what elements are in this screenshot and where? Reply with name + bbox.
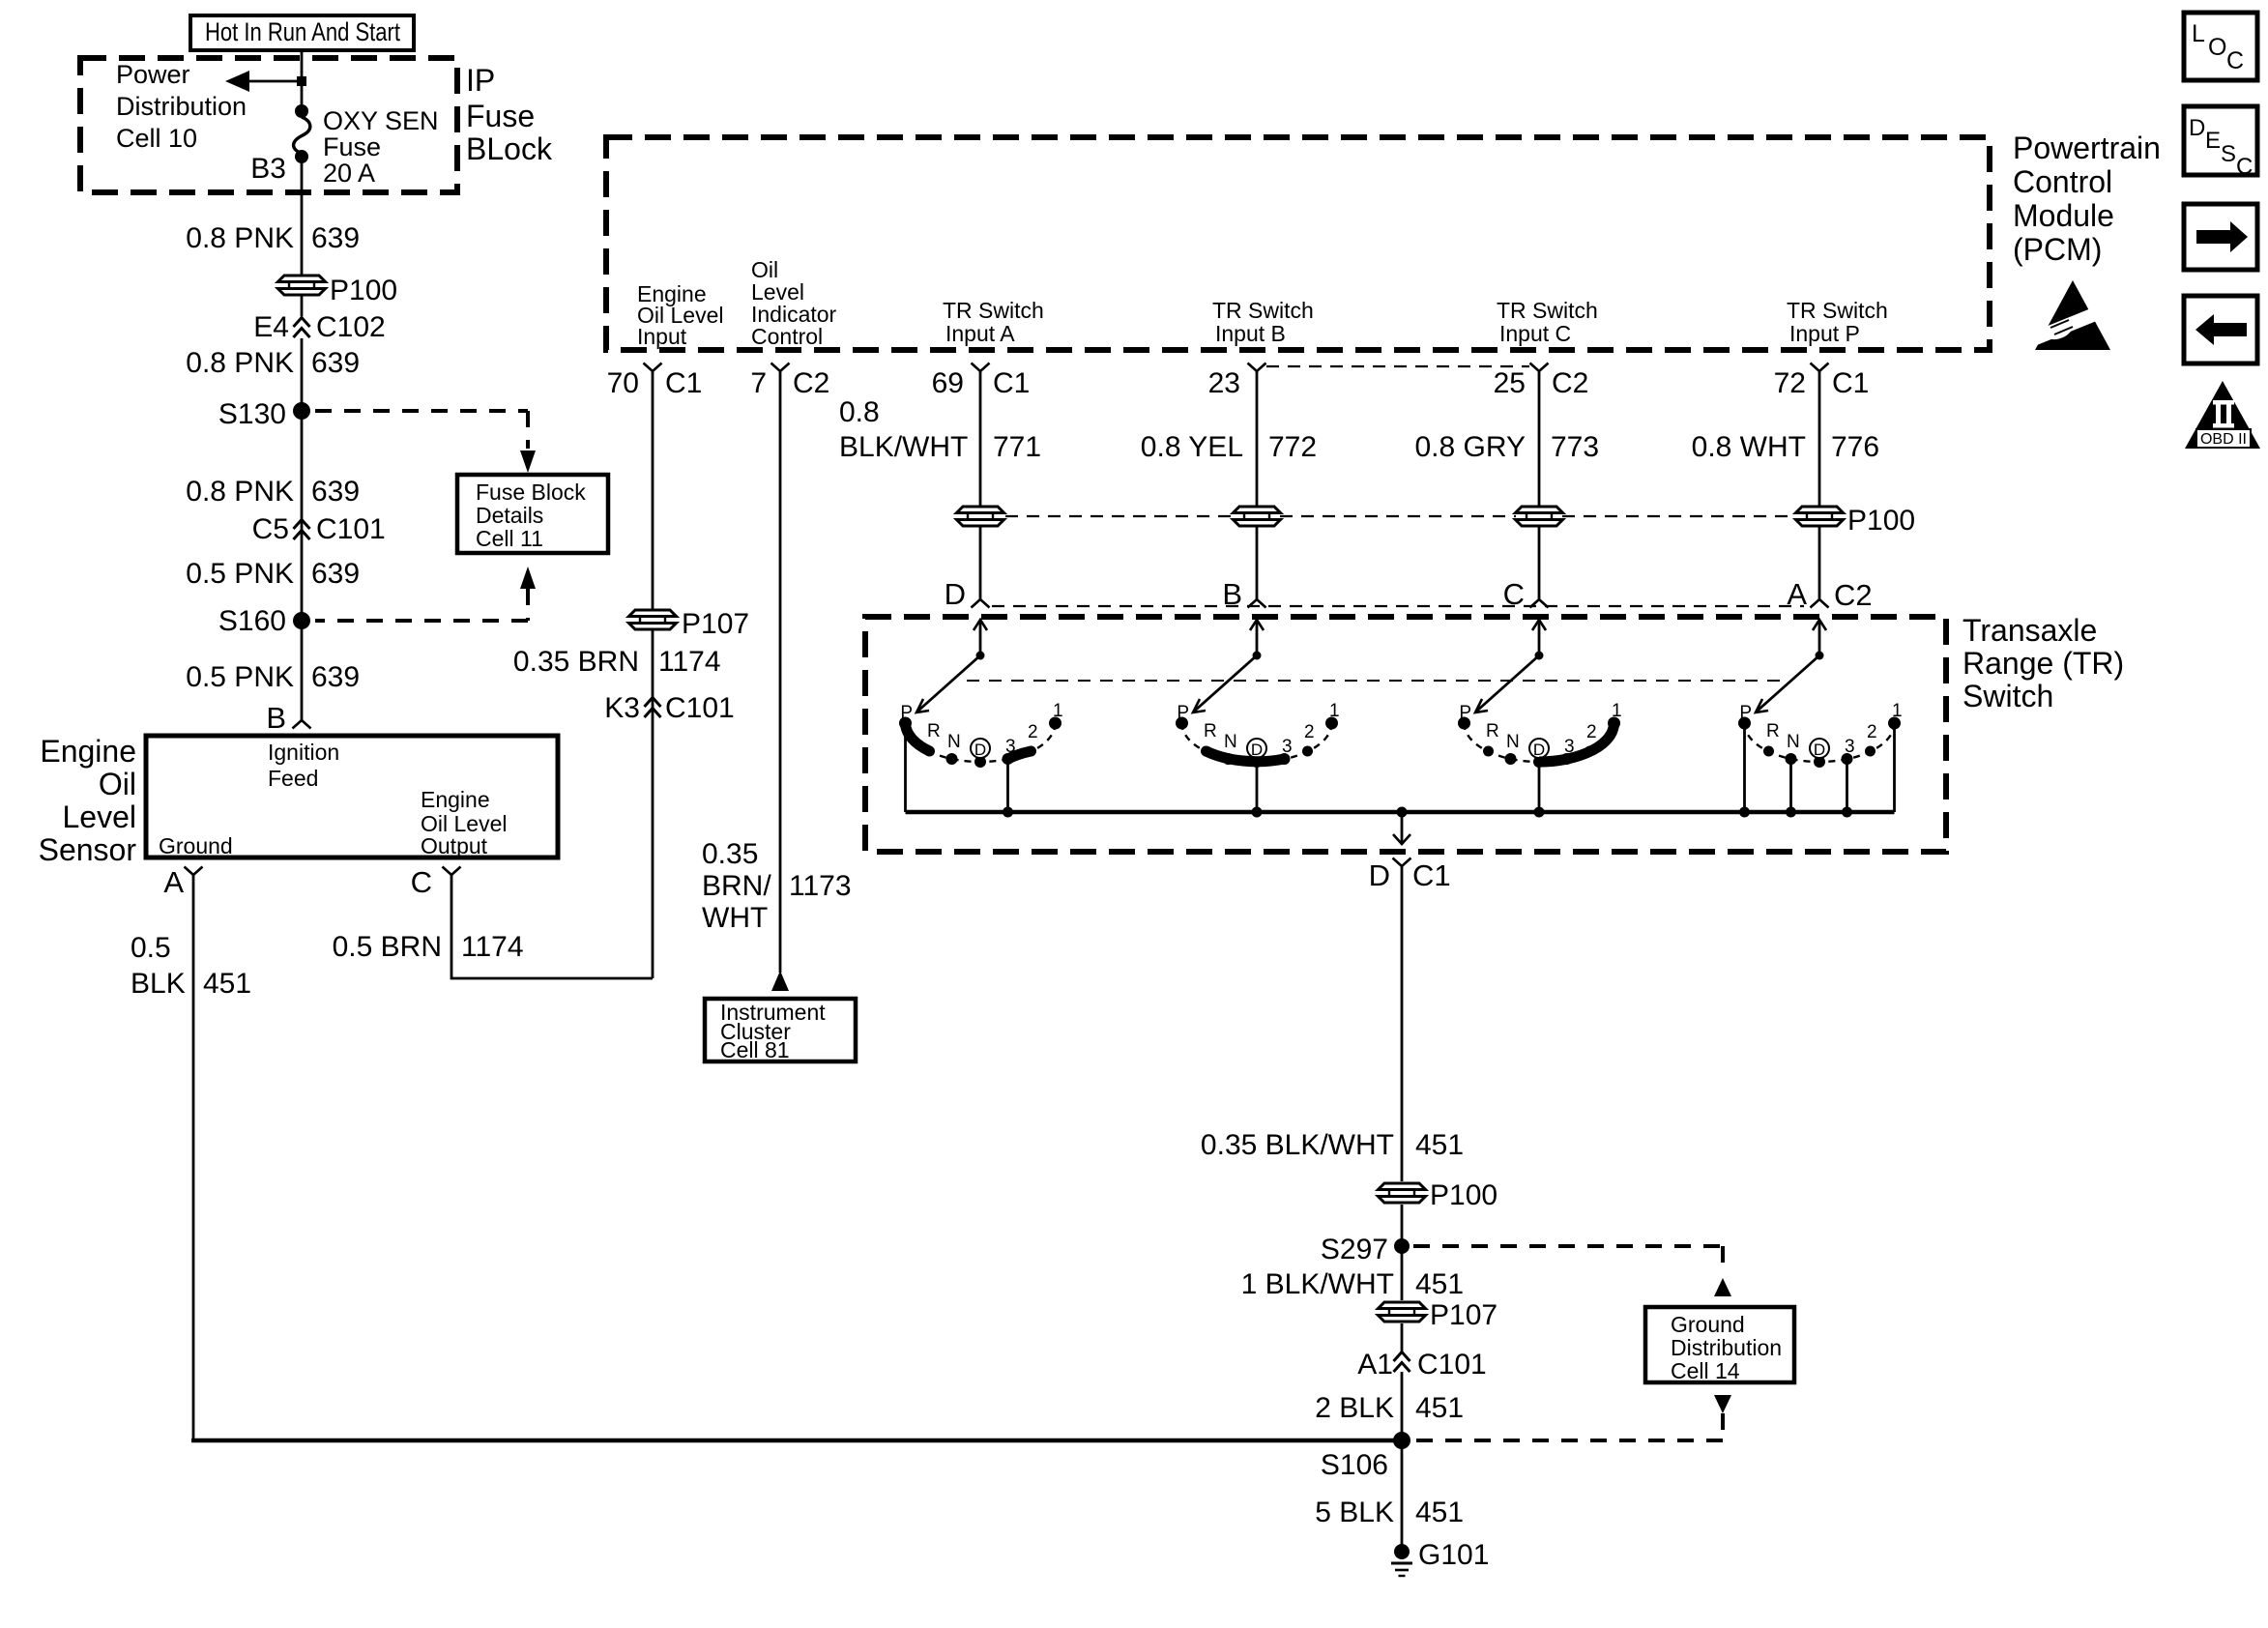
svg-text:C2: C2: [1834, 578, 1873, 612]
svg-text:Control: Control: [2013, 164, 2112, 199]
svg-text:Input C: Input C: [1499, 321, 1571, 346]
svg-text:1: 1: [1053, 701, 1063, 721]
svg-text:S160: S160: [218, 605, 286, 637]
wire: tap to Power Distribution: [247, 80, 302, 83]
wiper contact bar P-R (input A): [906, 723, 930, 751]
label: Powertrain Control Module (PCM): [2013, 131, 2161, 267]
svg-text:O: O: [2208, 34, 2226, 61]
wire 639: fuse to P100: [301, 157, 304, 276]
label: Engine Oil Level Sensor: [39, 734, 137, 867]
icon OBD II triangle: [2185, 381, 2260, 449]
svg-text:A: A: [163, 865, 184, 899]
svg-text:1: 1: [1612, 701, 1622, 721]
inline connector C101 (A1): [1394, 1352, 1410, 1373]
svg-text:Feed: Feed: [268, 766, 318, 791]
wire 451: sensor ground A to S106: [191, 875, 1402, 1440]
wire label 1 BLK/WHT 451: [1241, 1268, 1464, 1300]
svg-text:451: 451: [1415, 1497, 1464, 1528]
svg-text:Output: Output: [421, 833, 488, 858]
IP Fuse Block dashed box: [80, 58, 457, 192]
wire: Hot feed into fuse block: [301, 50, 304, 108]
svg-text:S130: S130: [218, 398, 286, 430]
wire: P contact to bus (input A): [904, 727, 907, 812]
connector C2 dashed tie line (D to A): [992, 605, 1804, 607]
port label: TR Switch Input C: [1497, 298, 1598, 346]
wire 1174: sensor output C: [451, 875, 653, 978]
grommet P100: [278, 276, 326, 295]
svg-text:Fuse: Fuse: [323, 132, 381, 161]
svg-text:Cell 81: Cell 81: [720, 1037, 790, 1062]
wire label 0.8 WHT 776: [1692, 431, 1879, 463]
svg-text:Module: Module: [2013, 198, 2114, 233]
svg-text:C1: C1: [993, 367, 1030, 399]
wire label 5 BLK 451: [1315, 1497, 1464, 1528]
wiper contact bar R-3 (input B): [1207, 751, 1285, 762]
icon box right arrow: [2184, 204, 2257, 270]
svg-text:S106: S106: [1321, 1449, 1388, 1481]
splice S130: [293, 402, 310, 420]
svg-text:Engine: Engine: [40, 734, 136, 769]
svg-text:Power: Power: [116, 60, 190, 89]
junction dot on bus (input B): [1252, 807, 1263, 818]
terminal A fork: [185, 867, 203, 876]
port label: TR Switch Input A: [943, 298, 1044, 346]
wire 772: pin 23 to TR switch B: [1256, 371, 1259, 507]
wire 773: pin 25 to TR switch C: [1538, 371, 1541, 507]
svg-text:0.5 PNK: 0.5 PNK: [186, 661, 294, 693]
wire label 0.8 BLK/WHT 771: [839, 396, 1041, 463]
ground G101: [1391, 1544, 1412, 1576]
wire label 0.8 YEL 772: [1141, 431, 1317, 463]
svg-text:BLK/WHT: BLK/WHT: [839, 431, 968, 463]
svg-text:C: C: [2226, 47, 2244, 74]
svg-text:K3: K3: [604, 692, 640, 724]
inline connector C101 (K3): [645, 698, 661, 718]
svg-text:L: L: [2192, 20, 2205, 47]
svg-text:2 BLK: 2 BLK: [1315, 1392, 1394, 1424]
svg-text:5 BLK: 5 BLK: [1315, 1497, 1394, 1528]
svg-text:773: 773: [1551, 431, 1599, 463]
svg-text:639: 639: [311, 222, 360, 254]
icon box DESC: [2184, 106, 2257, 180]
svg-text:Range (TR): Range (TR): [1963, 646, 2124, 681]
svg-text:C: C: [411, 865, 432, 899]
svg-text:R: R: [1486, 721, 1499, 741]
svg-text:0.5 PNK: 0.5 PNK: [186, 558, 294, 590]
svg-text:7: 7: [750, 367, 767, 399]
svg-text:0.8 YEL: 0.8 YEL: [1141, 431, 1243, 463]
svg-text:P: P: [1459, 703, 1471, 723]
wire 1173: PCM pin 7 to instrument cluster: [779, 371, 782, 973]
svg-text:70: 70: [607, 367, 639, 399]
svg-text:P107: P107: [1430, 1299, 1497, 1331]
terminal 70 C1 fork: [644, 363, 662, 372]
wire label 0.5 PNK 639: [186, 558, 360, 590]
svg-text:2: 2: [1304, 722, 1315, 742]
svg-text:Ground: Ground: [159, 833, 233, 858]
pin label 70 / C1: [607, 367, 703, 399]
svg-text:451: 451: [1415, 1129, 1464, 1161]
svg-text:C1: C1: [665, 367, 702, 399]
svg-text:0.35: 0.35: [702, 838, 758, 870]
svg-text:Distribution: Distribution: [1671, 1335, 1782, 1360]
terminal 69 C1 fork: [972, 363, 990, 372]
junction dot on bus (input A): [1003, 807, 1013, 818]
pin label E4 / C102: [253, 311, 385, 343]
wire label 0.8 PNK 639: [186, 222, 360, 254]
TR switch wiper arrow (input B): [1193, 620, 1264, 712]
svg-text:IP: IP: [466, 63, 495, 98]
svg-text:639: 639: [311, 347, 360, 379]
pin label 25 / C2: [1494, 367, 1589, 399]
icon box left arrow: [2184, 296, 2257, 363]
inline connector C102: [294, 318, 310, 338]
pin label K3 / C101: [604, 692, 734, 724]
svg-text:0.5 BRN: 0.5 BRN: [333, 931, 442, 963]
wire: 3 contact to bus (input P): [1846, 763, 1848, 812]
svg-text:N: N: [947, 732, 961, 752]
mechanical link dashed line: [967, 680, 1788, 682]
svg-text:639: 639: [311, 558, 360, 590]
wire: [301, 295, 304, 316]
wire label 2 BLK 451: [1315, 1392, 1464, 1424]
TR switch wiper arrow (input A): [916, 620, 987, 712]
svg-text:P107: P107: [682, 608, 749, 640]
pin label A / C2: [1787, 577, 1872, 612]
svg-text:C102: C102: [316, 311, 386, 343]
svg-text:2: 2: [1028, 722, 1038, 742]
svg-text:Ignition: Ignition: [268, 740, 339, 765]
terminal C fork: [1530, 599, 1549, 608]
svg-text:OBD II: OBD II: [2200, 431, 2247, 448]
junction: feed tap: [297, 76, 306, 86]
svg-text:451: 451: [203, 968, 251, 1000]
svg-text:0.35 BRN: 0.35 BRN: [513, 646, 639, 678]
svg-text:Input B: Input B: [1215, 321, 1286, 346]
svg-text:G101: G101: [1418, 1539, 1489, 1571]
grommet P100: [1379, 1183, 1426, 1203]
svg-text:BLock: BLock: [466, 131, 553, 166]
grommet P100 dashed tie line: [1005, 515, 1796, 517]
wire: [1401, 1205, 1404, 1300]
svg-text:C101: C101: [316, 513, 386, 545]
svg-text:B: B: [266, 701, 286, 735]
arrow: bus output leaves TR switch: [1393, 812, 1410, 844]
svg-text:Oil: Oil: [99, 767, 136, 801]
splice S297: [1394, 1238, 1410, 1254]
svg-text:E: E: [2205, 128, 2221, 154]
fuse: OXY SEN Fuse 20 A: [294, 104, 310, 163]
splice S106: [1393, 1432, 1410, 1449]
svg-text:Switch: Switch: [1963, 679, 2053, 713]
wire 639: [301, 338, 304, 411]
svg-text:TR Switch: TR Switch: [1497, 298, 1598, 323]
svg-text:N: N: [1224, 732, 1237, 752]
port label: TR Switch Input B: [1212, 298, 1314, 346]
svg-text:C2: C2: [1552, 367, 1588, 399]
svg-text:TR Switch: TR Switch: [1787, 298, 1888, 323]
terminal 25 C2 fork: [1530, 363, 1549, 372]
wire: 1 contact to bus end (input P): [1893, 727, 1896, 812]
svg-text:OXY SEN: OXY SEN: [323, 106, 439, 135]
TR switch position labels (input B): [1177, 701, 1339, 759]
svg-text:D: D: [1251, 741, 1263, 759]
port label: Engine Oil Level Output: [421, 787, 507, 858]
power feed box: Hot In Run And Start: [190, 15, 414, 50]
reference box: Fuse Block Details Cell 11: [457, 475, 608, 553]
TR switch wiper arrow (input C): [1475, 620, 1546, 712]
junction dots on bus (input P): [1739, 807, 1852, 818]
svg-text:1: 1: [1892, 701, 1903, 721]
svg-text:C5: C5: [252, 513, 289, 545]
svg-text:25: 25: [1494, 367, 1526, 399]
svg-text:D: D: [974, 741, 986, 759]
wire label 0.5 BRN 1174: [333, 931, 524, 963]
svg-text:P: P: [1739, 703, 1752, 723]
junction dot: bus output: [1397, 807, 1408, 818]
arrowhead to Power Distribution: [225, 71, 249, 92]
TR switch contact arc (input P): [1745, 723, 1895, 762]
svg-text:TR Switch: TR Switch: [1212, 298, 1314, 323]
svg-text:Control: Control: [751, 324, 823, 349]
wire 451: C101 to S106 to G101: [1401, 1372, 1404, 1552]
svg-text:C1: C1: [1412, 858, 1451, 892]
svg-text:3: 3: [1845, 737, 1855, 757]
grommet P100 on wire 776: [1796, 507, 1844, 526]
svg-text:0.8 PNK: 0.8 PNK: [186, 222, 294, 254]
svg-text:P100: P100: [1847, 505, 1915, 537]
wire label 0.5 PNK 639: [186, 661, 360, 693]
pin label 69 / C1: [932, 367, 1031, 399]
pin label C5 / C101: [252, 513, 386, 545]
TR switch contact arc (input B): [1182, 723, 1332, 762]
svg-text:C: C: [2236, 154, 2253, 180]
svg-text:451: 451: [1415, 1392, 1464, 1424]
wire label 0.5 BLK 451: [131, 932, 251, 1000]
svg-text:69: 69: [932, 367, 964, 399]
inline connector C101 (C5): [294, 520, 310, 540]
wire: P contact to bus (input P): [1743, 727, 1746, 812]
svg-text:Cell 11: Cell 11: [476, 526, 543, 551]
svg-text:Fuse: Fuse: [466, 99, 535, 133]
wire: D contact to bus (input C): [1538, 766, 1541, 812]
grommet P100 on wire 772: [1234, 507, 1281, 526]
TR switch contact arc (input C): [1465, 723, 1614, 762]
svg-text:BRN/: BRN/: [702, 870, 771, 902]
icon box LOC: [2184, 13, 2257, 80]
port label: Ignition Feed: [268, 740, 339, 791]
TR switch wiper arrow (input P): [1756, 620, 1826, 712]
wire: 3 contact to bus (input A): [1006, 763, 1009, 812]
reference box: Instrument Cluster Cell 81: [705, 999, 856, 1062]
wire 639: S130 to S160: [301, 411, 304, 624]
svg-text:S: S: [2221, 141, 2236, 167]
wire label 0.35 BLK/WHT 451: [1201, 1129, 1464, 1161]
wire 639: S160 to sensor: [301, 624, 304, 720]
svg-text:R: R: [1766, 721, 1780, 741]
svg-text:72: 72: [1774, 367, 1806, 399]
svg-text:1 BLK/WHT: 1 BLK/WHT: [1241, 1268, 1394, 1300]
PCM dashed box: [606, 137, 1990, 350]
label: IP Fuse BLock: [466, 63, 553, 166]
connector C2 dashed tie line (23 to 25): [1266, 365, 1529, 367]
wire label 0.35 BRN/WHT 1173: [702, 838, 852, 934]
svg-text:P100: P100: [330, 275, 397, 306]
svg-text:C101: C101: [665, 692, 735, 724]
svg-text:639: 639: [311, 661, 360, 693]
svg-text:Cell 10: Cell 10: [116, 124, 197, 153]
terminal B fork: [293, 720, 311, 729]
svg-text:Input P: Input P: [1789, 321, 1860, 346]
svg-text:639: 639: [311, 476, 360, 508]
svg-text:C1: C1: [1832, 367, 1869, 399]
svg-text:Sensor: Sensor: [39, 832, 137, 867]
wiper contact bar D-1 (input C): [1539, 723, 1614, 762]
svg-text:Level: Level: [63, 799, 137, 834]
svg-text:0.8 WHT: 0.8 WHT: [1692, 431, 1806, 463]
wire 771: pin 69 to TR switch D: [979, 371, 982, 507]
TR switch contact dots P R N D 3 2 1 (input A): [899, 717, 1061, 769]
terminal B fork: [1248, 599, 1266, 608]
svg-text:23: 23: [1208, 367, 1240, 399]
svg-text:D: D: [1533, 741, 1545, 759]
terminal D fork: [972, 599, 990, 608]
svg-text:Input A: Input A: [945, 321, 1015, 346]
svg-text:Input: Input: [637, 324, 687, 349]
TR switch common bus wire: [906, 810, 1895, 815]
dashed reference: S130 to Fuse Block Details: [315, 411, 536, 473]
grommet P107: [629, 610, 677, 629]
svg-text:772: 772: [1268, 431, 1317, 463]
svg-text:0.5: 0.5: [131, 932, 171, 964]
wire: [652, 630, 654, 978]
svg-text:Distribution: Distribution: [116, 92, 247, 121]
svg-text:P: P: [1177, 703, 1189, 723]
svg-text:451: 451: [1415, 1268, 1464, 1300]
svg-text:A1: A1: [1357, 1349, 1393, 1381]
dashed reference: S160 to Fuse Block Details: [315, 567, 536, 621]
svg-text:P100: P100: [1430, 1179, 1497, 1211]
svg-text:R: R: [927, 721, 941, 741]
TR switch contact dots P R N D 3 2 1 (input B): [1176, 717, 1338, 769]
svg-text:C2: C2: [793, 367, 829, 399]
wire 1174: PCM pin 70 to splice with sensor output: [652, 371, 654, 609]
svg-text:D: D: [1814, 741, 1825, 759]
svg-text:N: N: [1787, 732, 1800, 752]
svg-text:Engine: Engine: [421, 787, 490, 812]
svg-text:Ground: Ground: [1671, 1312, 1745, 1337]
pin label 7 / C2: [750, 367, 829, 399]
svg-text:B3: B3: [250, 153, 286, 185]
svg-text:D: D: [2189, 115, 2205, 141]
svg-text:Transaxle: Transaxle: [1963, 613, 2097, 648]
ESD sensitivity symbol: [2026, 280, 2113, 350]
TR switch contact dots P R N D 3 2 1 (input C): [1458, 717, 1620, 769]
reference box: Ground Distribution Cell 14: [1645, 1307, 1794, 1383]
svg-text:2: 2: [1586, 722, 1597, 742]
svg-text:Details: Details: [476, 503, 543, 528]
svg-text:N: N: [1506, 732, 1520, 752]
TR switch position labels (input P): [1739, 701, 1902, 759]
wire: [1401, 1323, 1404, 1352]
TR switch position labels (input C): [1459, 701, 1621, 759]
wire label 0.8 PNK 639: [186, 347, 360, 379]
svg-text:1: 1: [1329, 701, 1340, 721]
splice S160: [293, 612, 310, 629]
svg-text:P: P: [900, 703, 913, 723]
svg-text:0.8 PNK: 0.8 PNK: [186, 476, 294, 508]
svg-text:BLK: BLK: [131, 968, 186, 1000]
junction dot on bus (input C): [1534, 807, 1545, 818]
pin label A1 / C101: [1357, 1349, 1486, 1381]
svg-text:0.8 PNK: 0.8 PNK: [186, 347, 294, 379]
svg-text:D: D: [945, 577, 966, 611]
port label: TR Switch Input P: [1787, 298, 1888, 346]
wire 451: TR switch D to P100: [1401, 866, 1404, 1181]
wire segments into TR switch: [980, 526, 1819, 599]
svg-text:1173: 1173: [789, 870, 852, 902]
terminal D C1 fork (TR switch output): [1393, 858, 1411, 867]
TR switch contact dots P R N D 3 2 1 (input P): [1738, 717, 1901, 769]
svg-text:Powertrain: Powertrain: [2013, 131, 2161, 165]
wire label 0.35 BRN 1174: [513, 646, 721, 678]
pin label 72 / C1: [1774, 367, 1870, 399]
svg-text:Hot In Run And Start: Hot In Run And Start: [205, 17, 400, 46]
svg-text:TR Switch: TR Switch: [943, 298, 1044, 323]
reference arrow to Instrument Cluster: [771, 971, 789, 991]
svg-text:E4: E4: [253, 311, 289, 343]
svg-text:C101: C101: [1417, 1349, 1487, 1381]
label: Transaxle Range (TR) Switch: [1963, 613, 2124, 713]
dashed reference: Ground Distribution to S106: [1415, 1395, 1731, 1440]
pin label D / C1: [1369, 858, 1451, 892]
wire label 0.8 GRY 773: [1414, 431, 1599, 463]
Transaxle Range Switch dashed box: [865, 617, 1946, 852]
terminal 72 C1 fork: [1811, 363, 1829, 372]
svg-text:1174: 1174: [658, 646, 721, 678]
svg-text:0.8: 0.8: [839, 396, 880, 428]
svg-text:Fuse Block: Fuse Block: [476, 480, 586, 505]
svg-text:(PCM): (PCM): [2013, 232, 2102, 267]
svg-text:20 A: 20 A: [323, 159, 375, 188]
grommet P100 on wire 773: [1516, 507, 1563, 526]
port label: Oil Level Indicator Control: [751, 257, 837, 349]
svg-text:1174: 1174: [461, 931, 524, 963]
terminal C fork: [443, 867, 461, 876]
svg-text:D: D: [1369, 858, 1390, 892]
wire 776: pin 72 to TR switch A: [1818, 371, 1821, 507]
svg-text:R: R: [1204, 721, 1217, 741]
svg-text:2: 2: [1867, 722, 1877, 742]
svg-text:771: 771: [993, 431, 1041, 463]
port label: Engine Oil Level Input: [637, 281, 723, 349]
component box: Engine Oil Level Sensor: [146, 736, 558, 858]
terminal 23 fork: [1248, 363, 1266, 372]
svg-text:3: 3: [1282, 737, 1293, 757]
svg-text:S297: S297: [1321, 1234, 1388, 1265]
wiper contact bar 3-2 (input A): [1008, 751, 1032, 759]
wire label 0.8 PNK 639: [186, 476, 360, 508]
svg-text:776: 776: [1831, 431, 1879, 463]
TR switch position labels (input A): [900, 701, 1062, 759]
terminal A C2 fork: [1811, 599, 1829, 608]
value label: OXY SEN Fuse 20 A: [323, 106, 439, 188]
TR switch contact arc (input A): [906, 723, 1056, 762]
grommet P100 on wire 771: [957, 507, 1004, 526]
svg-text:0.8 GRY: 0.8 GRY: [1414, 431, 1526, 463]
terminal 7 C2 fork: [771, 363, 790, 372]
dashed reference: S297 to Ground Distribution: [1413, 1246, 1731, 1296]
